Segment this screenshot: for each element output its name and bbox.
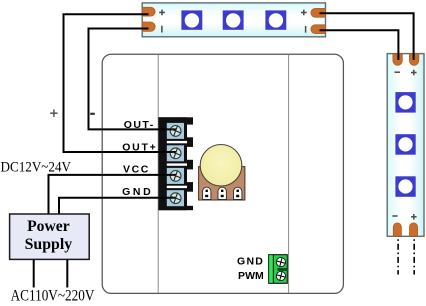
label - (LS1 left): [161, 26, 163, 33]
wire AC input right: [66, 260, 68, 288]
svg-text:Power: Power: [27, 218, 70, 235]
LED strip LS2 (right, vertical): [387, 54, 424, 237]
terminal block J2 (green): [269, 255, 288, 284]
svg-text:GND: GND: [122, 186, 151, 198]
svg-text:Supply: Supply: [25, 236, 73, 253]
wire GND to power supply: [59, 198, 159, 215]
label + (LS1 left): [159, 10, 165, 16]
LED D2: [223, 10, 244, 29]
controller enclosure U1: [102, 54, 343, 293]
label - (wire): [90, 113, 95, 115]
LED D1: [181, 10, 202, 29]
label VCC: [123, 163, 149, 175]
label OUT+: [122, 141, 156, 153]
continuation dash-dot line right: [413, 239, 415, 274]
wire AC input left: [33, 260, 35, 288]
svg-text:DC12V~24V: DC12V~24V: [1, 160, 72, 176]
label + (LS2 top): [411, 70, 417, 76]
LED D3: [265, 10, 286, 29]
terminal block J1 body: [158, 117, 193, 210]
screw terminal J2 pin 1: [276, 257, 287, 268]
label + (LS1 right): [301, 10, 307, 16]
svg-text:OUT+: OUT+: [122, 141, 156, 153]
solder pad LS2 bottom +: [410, 223, 418, 236]
solder pad LS2 bottom -: [393, 223, 401, 236]
PCB edge line left: [157, 55, 159, 293]
solder pad LS1 right +: [311, 8, 326, 17]
solder pad LS1 left -: [142, 22, 155, 31]
wire LS1(-) to LS2(-): [320, 30, 399, 60]
wire VCC to power supply: [49, 175, 160, 215]
label - (LS1 right): [305, 26, 307, 33]
PCB edge line right: [288, 55, 290, 293]
svg-text:AC110V~220V: AC110V~220V: [11, 287, 95, 304]
potentiometer VR1: [199, 145, 245, 201]
solder pad LS1 left +: [142, 7, 155, 16]
label OUT-: [124, 119, 154, 131]
screw terminal J1 pin 2: [159, 145, 184, 161]
label DC12V~24V: [1, 160, 72, 176]
label + (wire): [50, 110, 57, 117]
LED D4: [395, 92, 415, 113]
LED strip LS1 (top, horizontal): [142, 3, 325, 37]
label + (LS2 bottom): [411, 214, 417, 220]
solder pad LS2 top -: [393, 54, 402, 65]
wire LS1(+) to LS2(+): [320, 13, 414, 60]
screw terminal J1 pin 4: [159, 190, 184, 206]
continuation dash-dot line left: [397, 239, 399, 274]
screw terminal J1 pin 3: [159, 168, 184, 184]
svg-text:GND: GND: [237, 255, 263, 267]
label GND (J2): [237, 255, 263, 267]
label - (LS2 bottom): [392, 215, 397, 217]
svg-text:PWM: PWM: [238, 270, 264, 282]
LED D5: [395, 134, 415, 155]
LED D6: [395, 176, 415, 197]
label AC110V~220V: [11, 287, 95, 304]
label GND: [122, 186, 151, 198]
label PWM (J2): [238, 270, 264, 282]
svg-text:OUT-: OUT-: [124, 119, 154, 131]
solder pad LS1 right -: [311, 25, 326, 34]
power supply PS1: [10, 214, 90, 259]
screw terminal J1 pin 1: [159, 123, 184, 139]
screw terminal J2 pin 2: [276, 271, 287, 282]
svg-text:VCC: VCC: [123, 163, 149, 175]
wire LS1(+) to OUT+: [64, 14, 161, 152]
wire LS1(-) to OUT-: [89, 29, 161, 130]
label - (LS2 top): [395, 71, 401, 73]
solder pad LS2 top +: [409, 54, 418, 65]
